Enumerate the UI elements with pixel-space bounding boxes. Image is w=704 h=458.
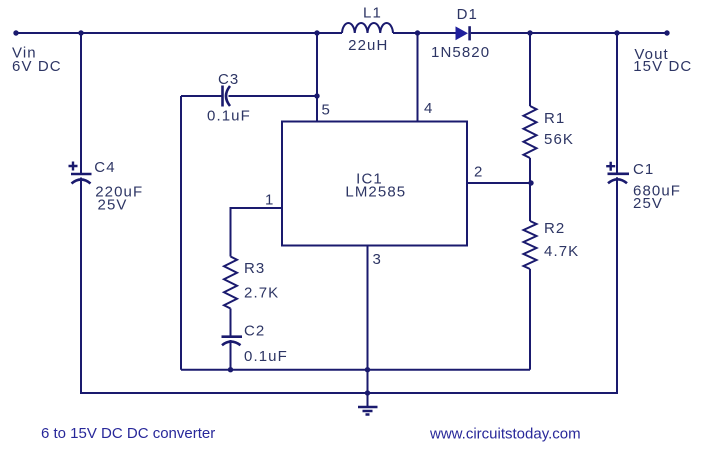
node: junction C2 / inner bottom rail	[228, 367, 233, 372]
svg-text:0.1uF: 0.1uF	[244, 348, 288, 365]
svg-text:C2: C2	[244, 323, 265, 340]
svg-text:0.1uF: 0.1uF	[207, 108, 251, 125]
capacitor C4	[71, 174, 92, 184]
node: junction pin2 / R1 / R2	[528, 180, 533, 185]
wire: R1 to divider node	[529, 158, 531, 221]
svg-text:C4: C4	[94, 159, 115, 176]
wire: L1 to D1 anode	[393, 32, 456, 34]
svg-text:4.7K: 4.7K	[544, 243, 579, 260]
svg-text:6V DC: 6V DC	[12, 58, 62, 75]
svg-text:R3: R3	[244, 260, 265, 277]
svg-text:15V DC: 15V DC	[633, 58, 692, 75]
resistor R1	[524, 106, 537, 158]
node: junction C3 / pin5 branch	[314, 93, 319, 98]
svg-text:2.7K: 2.7K	[244, 285, 279, 302]
svg-text:25V: 25V	[633, 195, 663, 212]
svg-text:25V: 25V	[98, 197, 128, 214]
wire: pin3 branch down through rails to ground	[367, 245, 369, 406]
wire: R2 down to inner bottom rail	[529, 269, 531, 370]
resistor R2	[524, 221, 537, 269]
wire: inner bottom rail	[181, 369, 530, 371]
R2 reference label	[544, 220, 565, 237]
C4 value label 25V	[98, 197, 128, 214]
capacitor C2	[222, 337, 243, 346]
wire: R1 branch from top rail	[529, 33, 531, 106]
wire: C2 to inner bottom rail	[230, 340, 232, 370]
C1 polarity plus sign	[606, 162, 615, 171]
svg-text:C3: C3	[218, 71, 239, 88]
C1 value label 25V	[633, 195, 663, 212]
node: Vin terminal	[13, 30, 18, 35]
wire: pin2 horizontal lead to R1/R2 divider	[467, 182, 531, 184]
pin number 2	[474, 164, 482, 181]
node: junction top rail / R1 branch	[527, 30, 532, 35]
wire: C3 right lead to pin5 branch	[229, 95, 318, 97]
svg-text:4: 4	[424, 100, 432, 117]
svg-text:www.circuitstoday.com: www.circuitstoday.com	[429, 426, 581, 443]
wire: right rail upper (C1 branch)	[616, 33, 618, 173]
svg-text:1: 1	[265, 192, 273, 209]
wire: R3 to C2	[230, 309, 232, 336]
pin number 4	[424, 100, 432, 117]
node: junction top rail / pin5 branch	[314, 30, 319, 35]
svg-text:LM2585: LM2585	[345, 183, 406, 200]
R1 value label 56K	[544, 131, 574, 148]
label Vin	[12, 44, 37, 61]
C3 reference label	[218, 71, 239, 88]
svg-text:L1: L1	[363, 4, 382, 21]
R1 reference label	[544, 110, 565, 127]
wire: D1 cathode to Vout terminal	[471, 32, 667, 34]
pin number 5	[322, 102, 330, 119]
C4 reference label	[94, 159, 115, 176]
svg-text:R1: R1	[544, 110, 565, 127]
wire: inner left vertical (C3 to inner bottom rail)	[180, 96, 182, 370]
label 15V DC	[633, 58, 692, 75]
label Vout	[634, 46, 668, 63]
wire: left rail upper (Vin junction down to C4)	[80, 33, 82, 173]
svg-text:6 to 15V DC DC converter: 6 to 15V DC DC converter	[41, 425, 215, 442]
node: junction top rail / C1 branch	[614, 30, 619, 35]
caption: www.circuitstoday.com	[429, 426, 581, 443]
op-amp IC1 box (LM2585 regulator)	[282, 122, 467, 246]
svg-text:C1: C1	[633, 161, 654, 178]
R3 reference label	[244, 260, 265, 277]
wire: top rail Vin to L1	[16, 32, 342, 34]
svg-text:D1: D1	[457, 6, 478, 23]
C2 value label 0.1uF	[244, 348, 288, 365]
wire: pin5 branch vertical into IC top	[316, 33, 318, 121]
ground	[358, 407, 378, 415]
wire: outer bottom ground rail	[80, 392, 618, 394]
L1 value label 22uH	[348, 37, 388, 54]
inductor L1	[342, 23, 393, 33]
capacitor C3	[223, 86, 231, 107]
node: junction top rail / C4 branch	[78, 30, 83, 35]
wire: pin1 branch down to R3	[230, 207, 232, 257]
svg-text:3: 3	[373, 251, 381, 268]
C4 value label 220uF	[95, 184, 143, 201]
svg-text:56K: 56K	[544, 131, 574, 148]
L1 reference label	[363, 4, 382, 21]
caption: 6 to 15V DC DC converter	[41, 425, 215, 442]
pin number 3	[373, 251, 381, 268]
svg-text:R2: R2	[544, 220, 565, 237]
C4 polarity plus sign	[69, 162, 78, 171]
C1 value label 680uF	[633, 183, 681, 200]
wire: pin1 horizontal lead	[231, 207, 283, 209]
node: junction pin3 / outer bottom rail	[365, 390, 370, 395]
node: Vout terminal	[664, 30, 669, 35]
node: junction pin3 / inner bottom rail	[365, 367, 370, 372]
resistor R3	[224, 257, 237, 309]
capacitor C1	[608, 174, 630, 184]
svg-text:22uH: 22uH	[348, 37, 388, 54]
R2 value label 4.7K	[544, 243, 579, 260]
D1 reference label	[457, 6, 478, 23]
label 6V DC	[12, 58, 62, 75]
D1 value label 1N5820	[431, 44, 490, 61]
svg-text:5: 5	[322, 102, 330, 119]
wire: C3 left lead	[181, 95, 222, 97]
diode D1	[456, 26, 470, 40]
C1 reference label	[633, 161, 654, 178]
wire: left rail lower (C4 down to bottom rail)	[80, 178, 82, 394]
C2 reference label	[244, 323, 265, 340]
node: junction top rail / pin4 branch	[415, 30, 420, 35]
wire: right rail lower (C1 down to bottom rail)	[616, 177, 618, 393]
R3 value label 2.7K	[244, 285, 279, 302]
wire: pin4 branch vertical into IC top	[417, 33, 419, 121]
IC1 reference label	[356, 171, 383, 188]
pin number 1	[265, 192, 273, 209]
IC1 part number label LM2585	[345, 183, 406, 200]
svg-text:2: 2	[474, 164, 482, 181]
svg-text:1N5820: 1N5820	[431, 44, 490, 61]
C3 value label 0.1uF	[207, 108, 251, 125]
